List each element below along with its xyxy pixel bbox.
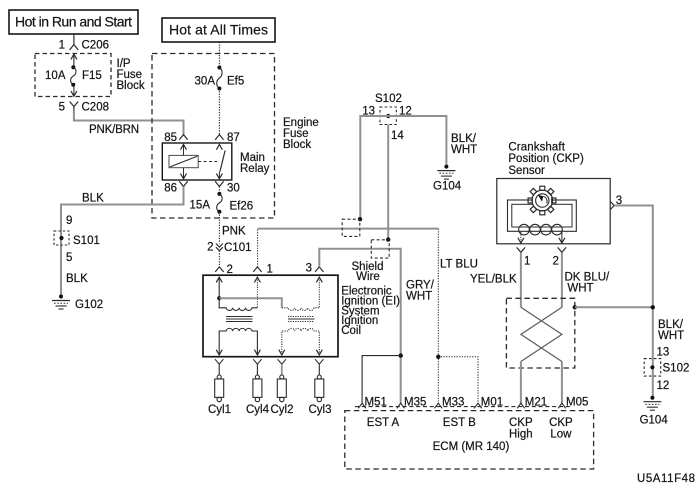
twisted pair crossover xyxy=(521,307,562,361)
fuse F15 xyxy=(45,54,102,96)
svg-text:2: 2 xyxy=(207,242,213,254)
svg-text:Hot in Run and Start: Hot in Run and Start xyxy=(15,14,132,30)
wire M21 xyxy=(520,362,522,404)
connector C101 xyxy=(216,242,252,254)
wire S102-12 BLK/WHT to G104 xyxy=(388,116,477,165)
splice S102 right xyxy=(644,359,689,377)
wire S102-14 to shield B xyxy=(387,125,389,239)
wire BLK S101 to G102 xyxy=(66,273,88,285)
CKP sensor box xyxy=(497,179,610,244)
svg-text:Block: Block xyxy=(117,80,145,92)
pin M05 xyxy=(558,397,588,409)
wire PNK/BRN xyxy=(74,111,184,137)
CKP pickup winding xyxy=(519,224,563,235)
svg-text:EST B: EST B xyxy=(443,417,476,429)
left primary winding xyxy=(219,298,257,310)
svg-text:85: 85 xyxy=(164,132,177,144)
svg-text:G104: G104 xyxy=(640,415,669,427)
svg-text:C101: C101 xyxy=(224,242,252,254)
relay switch xyxy=(216,145,225,179)
CKP gear icon xyxy=(528,186,556,215)
svg-text:12: 12 xyxy=(657,380,670,392)
coil internal pin2 lead xyxy=(216,277,222,298)
wire PNK Ef26 to C101 xyxy=(219,212,246,244)
svg-text:9: 9 xyxy=(66,215,72,227)
CKP internal lead 2 xyxy=(559,232,565,243)
svg-text:EST A: EST A xyxy=(367,417,400,429)
svg-text:87: 87 xyxy=(227,132,240,144)
svg-text:Cyl3: Cyl3 xyxy=(308,404,331,416)
engine fuse block dashed box xyxy=(152,54,319,219)
wire from Hot at All Times to Ef5 xyxy=(218,42,220,68)
wire branch to M01 xyxy=(438,357,478,404)
svg-text:14: 14 xyxy=(391,130,404,142)
wire coil pin1 riser xyxy=(257,230,259,267)
svg-text:30A: 30A xyxy=(195,76,216,88)
wire C101 to coil pin 2 xyxy=(218,251,220,267)
svg-text:Hot at All Times: Hot at All Times xyxy=(169,22,268,38)
svg-text:S102: S102 xyxy=(663,363,690,375)
relay coil-switch dashed link xyxy=(198,161,217,163)
svg-text:10A: 10A xyxy=(45,70,66,82)
spark plug Cyl1 xyxy=(208,359,231,416)
svg-text:G102: G102 xyxy=(75,299,103,311)
wire LT BLU down to M33 xyxy=(438,229,478,404)
svg-text:S102: S102 xyxy=(375,93,402,105)
svg-text:CKP: CKP xyxy=(549,417,573,429)
svg-text:15A: 15A xyxy=(190,200,211,212)
ground G104 upper xyxy=(433,165,462,193)
svg-text:30: 30 xyxy=(227,183,240,195)
splice S102 left xyxy=(362,93,412,142)
svg-text:WHT: WHT xyxy=(406,291,432,303)
svg-text:5: 5 xyxy=(59,102,65,114)
svg-text:LT BLU: LT BLU xyxy=(440,259,478,271)
coil internal pin3 lead xyxy=(316,277,322,308)
svg-text:5: 5 xyxy=(66,252,72,264)
left core xyxy=(226,317,253,322)
wire CKP pin3 to S102 right xyxy=(614,206,653,397)
svg-text:U5A11F48: U5A11F48 xyxy=(637,473,695,485)
CKP pin 1 connector xyxy=(517,247,531,267)
svg-text:WHT: WHT xyxy=(451,144,477,156)
right secondary winding xyxy=(282,328,320,354)
ground G102 xyxy=(52,295,103,312)
coil output arrows xyxy=(216,350,322,355)
svg-text:ECM (MR 140): ECM (MR 140) xyxy=(433,441,510,453)
svg-text:WHT: WHT xyxy=(567,283,593,295)
svg-text:1: 1 xyxy=(59,40,65,52)
svg-text:M21: M21 xyxy=(525,397,547,409)
svg-text:F15: F15 xyxy=(82,70,102,82)
svg-text:M35: M35 xyxy=(404,397,426,409)
svg-text:Sensor: Sensor xyxy=(508,165,545,177)
coil pin 3 xyxy=(306,263,324,275)
svg-text:PNK/BRN: PNK/BRN xyxy=(89,124,139,136)
pin M35 xyxy=(397,397,426,409)
svg-text:G104: G104 xyxy=(433,181,462,193)
fuse Ef26 xyxy=(190,187,254,214)
junction node LT BLU at M33 xyxy=(436,355,440,359)
pin 86 xyxy=(164,181,187,194)
title box Hot at All Times xyxy=(162,18,275,42)
svg-text:Ef5: Ef5 xyxy=(227,76,244,88)
svg-text:86: 86 xyxy=(164,183,177,195)
svg-text:Position (CKP): Position (CKP) xyxy=(508,153,584,165)
svg-text:BLK: BLK xyxy=(66,273,88,285)
ECM pin strip xyxy=(355,406,570,408)
svg-text:13: 13 xyxy=(657,347,670,359)
coil feed wire to right primary xyxy=(219,298,282,308)
svg-text:M01: M01 xyxy=(481,397,503,409)
shield wire label xyxy=(352,261,384,283)
fuse Ef5 xyxy=(195,66,245,91)
svg-text:PNK: PNK xyxy=(222,226,246,238)
I/P fuse block dashed box xyxy=(35,54,145,97)
svg-text:BLK: BLK xyxy=(82,193,104,205)
CKP pin 3 xyxy=(610,195,622,210)
svg-text:C208: C208 xyxy=(82,102,110,114)
coil pin 1 xyxy=(253,264,273,276)
spark plug Cyl3 xyxy=(308,359,331,416)
junction node coil B+ xyxy=(217,296,221,300)
ground G104 lower xyxy=(640,396,669,427)
shield node B xyxy=(386,237,390,241)
CKP pin 2 connector xyxy=(553,247,567,267)
ECM box xyxy=(345,411,594,469)
svg-text:C206: C206 xyxy=(82,40,110,52)
svg-text:Ef26: Ef26 xyxy=(230,201,254,213)
coil internal pin1 lead xyxy=(254,277,260,308)
wire shield to BLK/WHT column xyxy=(575,306,653,308)
wire S102-13 to shield A xyxy=(360,116,388,218)
CKP reluctor double rect xyxy=(508,200,577,231)
svg-text:1: 1 xyxy=(267,264,273,276)
pin M33 xyxy=(435,397,465,409)
svg-text:Block: Block xyxy=(283,139,311,151)
svg-text:Cyl4: Cyl4 xyxy=(246,404,270,416)
junction node EST-A at M35 xyxy=(399,353,403,357)
wire BLK relay to S101 xyxy=(61,187,184,296)
wire DK BLU/WHT xyxy=(562,252,610,307)
svg-text:High: High xyxy=(509,429,533,441)
junction node BLK/WHT xyxy=(651,305,655,309)
pin M51 xyxy=(358,397,387,409)
pin 87 xyxy=(215,132,240,144)
coil pin 2 xyxy=(215,264,233,276)
svg-text:M33: M33 xyxy=(442,397,464,409)
pin 85 xyxy=(164,132,187,144)
svg-text:Cyl1: Cyl1 xyxy=(208,404,231,416)
wire from title box to C206 xyxy=(73,34,75,41)
right primary winding xyxy=(282,308,320,311)
shield box B xyxy=(371,240,389,258)
pin M21 xyxy=(517,397,547,409)
svg-text:Low: Low xyxy=(550,429,572,441)
main relay U1 box xyxy=(162,143,269,180)
splice S101 xyxy=(54,231,100,247)
wire EST coil pin1 top run xyxy=(258,228,439,230)
left secondary winding xyxy=(219,328,257,354)
svg-text:YEL/BLK: YEL/BLK xyxy=(470,274,517,286)
wire branch to M51 xyxy=(362,356,401,404)
shield node C xyxy=(573,305,577,309)
svg-text:2: 2 xyxy=(553,256,559,268)
svg-text:M05: M05 xyxy=(566,397,588,409)
connector C208 xyxy=(70,102,109,114)
svg-text:M51: M51 xyxy=(365,397,387,409)
right core xyxy=(288,317,315,322)
title box Hot in Run and Start xyxy=(9,10,138,34)
wire M05 xyxy=(561,362,563,404)
shield node A xyxy=(358,217,362,221)
pin 30 xyxy=(215,181,240,194)
svg-text:WHT: WHT xyxy=(658,330,684,342)
svg-text:2: 2 xyxy=(227,264,233,276)
shield box A xyxy=(342,219,360,236)
svg-text:CKP: CKP xyxy=(509,417,533,429)
connector C206 xyxy=(70,40,109,52)
CKP sensor labels xyxy=(508,141,584,177)
wire Ef5 to relay pin 87 xyxy=(218,89,220,135)
wire EST coil pin3 run GRY/WHT xyxy=(319,249,434,404)
svg-text:Crankshaft: Crankshaft xyxy=(508,141,565,153)
BLK/WHT label right xyxy=(658,319,684,342)
pin M01 xyxy=(474,397,503,409)
wire YEL/BLK xyxy=(470,252,521,307)
svg-text:S101: S101 xyxy=(73,235,100,247)
twisted pair shield box xyxy=(506,298,574,368)
svg-text:Relay: Relay xyxy=(240,163,270,175)
ignition coil box xyxy=(203,275,400,357)
svg-text:3: 3 xyxy=(306,263,312,275)
spark plug Cyl4 xyxy=(246,359,270,416)
svg-text:1: 1 xyxy=(524,256,530,268)
svg-text:Coil: Coil xyxy=(341,325,361,337)
relay coil xyxy=(169,145,198,179)
CKP internal lead 1 xyxy=(518,232,524,243)
svg-text:Wire: Wire xyxy=(356,271,380,283)
spark plug Cyl2 xyxy=(270,359,293,416)
svg-text:Cyl2: Cyl2 xyxy=(270,404,293,416)
